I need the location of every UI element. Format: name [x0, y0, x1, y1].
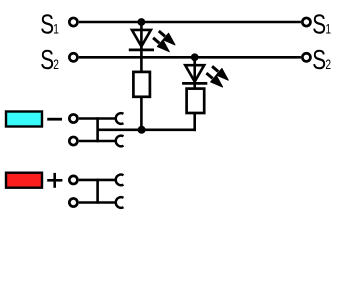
svg-text:S2: S2 — [40, 45, 59, 76]
contact socket row2 — [116, 136, 124, 147]
svg-text:S2: S2 — [312, 45, 331, 76]
wire bridge bar minus — [96, 117, 99, 142]
junction node on S1 wire — [138, 18, 146, 26]
terminal circle S1 right — [302, 18, 310, 26]
terminal circle minus row2 — [69, 137, 77, 145]
wire S2 horizontal — [79, 56, 301, 59]
wire LED1 branch vertical — [140, 22, 143, 73]
terminal circle minus row1 — [69, 114, 77, 122]
terminal circle plus row1 — [69, 176, 77, 184]
wire plus row2 — [79, 201, 116, 204]
resistor R2 — [187, 89, 205, 113]
minus sign — [47, 118, 62, 121]
label S1 right — [312, 10, 331, 41]
terminal circle S2 right — [302, 53, 310, 61]
wire LED2 branch vertical — [193, 57, 196, 89]
wire S1 horizontal — [79, 21, 301, 24]
contact socket plus row2 — [116, 197, 124, 208]
junction node on bus — [138, 126, 146, 134]
svg-text:S1: S1 — [40, 10, 59, 41]
label S1 left — [40, 10, 59, 41]
wire minus row1 — [79, 117, 116, 120]
resistor R1 — [133, 72, 150, 97]
terminal circle S1 left — [69, 18, 77, 26]
wire R1 to bus — [140, 97, 143, 130]
svg-text:S1: S1 — [312, 10, 331, 41]
positive marker block (red) — [6, 173, 42, 188]
wire bottom bus — [98, 129, 196, 132]
label S2 left — [40, 45, 59, 76]
label S2 right — [312, 45, 331, 76]
wire bridge bar plus — [96, 179, 99, 204]
LED D1 — [132, 30, 175, 52]
LED D2 — [185, 65, 228, 87]
LED D1 cathode bar — [129, 49, 154, 52]
wire minus row2 — [79, 140, 116, 143]
LED D2 cathode bar — [182, 82, 207, 85]
contact socket plus row1 — [116, 175, 124, 186]
negative marker block (cyan) — [6, 112, 42, 127]
wire R2 to bus — [193, 113, 196, 131]
junction node on S2 wire — [191, 53, 199, 61]
terminal circle S2 left — [69, 53, 77, 61]
contact socket row1 — [116, 113, 124, 124]
plus sign — [47, 179, 62, 182]
terminal circle plus row2 — [69, 198, 77, 206]
wire plus row1 — [79, 179, 116, 182]
